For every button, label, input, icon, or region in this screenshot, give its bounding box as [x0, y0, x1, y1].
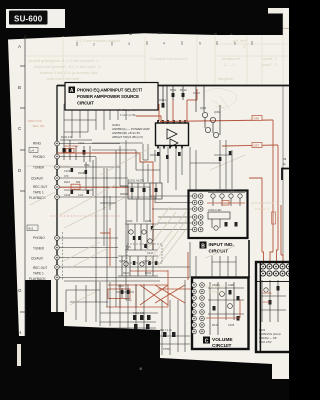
svg-text:.8.C.9 ent evomer ot woH: .8.C.9 ent evomer ot woH [75, 38, 120, 43]
resistor R101 / capacitor C101 phono input network [60, 140, 92, 162]
wire grid upper area [64, 95, 232, 210]
small parts in red mesh area [116, 288, 134, 298]
title box A [65, 83, 158, 111]
svg-text:snaem .E: snaem .E [255, 207, 270, 211]
bottom text block [259, 328, 281, 344]
svg-text:R101 47k: R101 47k [61, 135, 73, 139]
svg-text:langiseD: langiseD [218, 76, 234, 81]
wire input jack bus [56, 85, 58, 312]
svg-text:Q501: Q501 [210, 189, 217, 193]
svg-text:B: B [201, 243, 205, 249]
svg-text:1 kHz (mV): 1 kHz (mV) [120, 113, 135, 117]
wire runs from input jacks [59, 144, 192, 278]
svg-text:MAX 2.5V: MAX 2.5V [259, 340, 272, 344]
svg-text:D36: D36 [254, 117, 260, 121]
svg-text:Re 78 c(mV): Re 78 c(mV) [118, 108, 135, 112]
svg-text:G: G [18, 288, 22, 293]
op-amp IC301 AN6552 power amp [156, 120, 189, 149]
schematic frame: left margin rule [24, 35, 26, 336]
svg-text:CIRCUIT: CIRCUIT [77, 101, 94, 106]
page corner notch top-right [268, 8, 283, 14]
svg-text:REC OUT: REC OUT [33, 185, 47, 189]
svg-text:RL401: RL401 [263, 300, 271, 304]
wire thick power rail (top frame line) [57, 85, 289, 87]
svg-text:LN514 LED: LN514 LED [208, 208, 222, 212]
svg-text:SVR401: SVR401 [262, 291, 272, 295]
svg-text:3: 3 [128, 42, 130, 46]
svg-text:R110: R110 [64, 180, 71, 184]
svg-text:C109: C109 [64, 193, 71, 197]
faint through-print text top (mirrored page behind) [28, 38, 278, 81]
svg-text:CIRCUIT: CIRCUIT [212, 343, 232, 349]
wire verticals joining clusters [96, 140, 182, 307]
svg-text:100p: 100p [126, 299, 132, 302]
vertical bundle down the right of B box [272, 120, 274, 252]
svg-text:4: 4 [163, 42, 165, 46]
svg-text:Q502: Q502 [228, 189, 235, 193]
transistors Q205/Q206 flat amp cluster [118, 256, 158, 276]
svg-text:BAL 10k: BAL 10k [33, 124, 45, 128]
red feed along IC [160, 120, 273, 122]
dashed bus right of jacks [62, 232, 64, 280]
speaker terminal jacks [260, 264, 265, 269]
red REC OUT trace [59, 187, 128, 197]
svg-text:swercs 3 eht )2.8 (p evomer dn: swercs 3 eht )2.8 (p evomer dna [40, 70, 98, 75]
svg-text:VOLUME: VOLUME [212, 337, 233, 343]
svg-text:TAPE 1: TAPE 1 [33, 191, 44, 195]
svg-text:PHONO: PHONO [33, 155, 45, 159]
IC part-number text block [112, 123, 150, 139]
svg-text:R105 MAIN: R105 MAIN [64, 144, 78, 148]
capacitors C303/C304, resistors R311/R312 on supply rail [152, 86, 204, 124]
right frame rule [282, 86, 284, 262]
svg-text:Q302: Q302 [214, 110, 221, 114]
thick box corner top right [282, 169, 289, 181]
svg-text:CD/AUX: CD/AUX [31, 177, 44, 181]
svg-text:D37: D37 [254, 144, 260, 148]
svg-text:Cl rewo9 ent evome1: Cl rewo9 ent evome1 [150, 56, 189, 61]
bends into bottom jack panel [262, 252, 264, 264]
svg-text:H: H [18, 330, 21, 335]
wire grid bottom area [66, 280, 190, 355]
svg-text:C: C [205, 338, 209, 344]
dirt specks along top edge [129, 33, 233, 35]
faint table rules of through-print [25, 14, 289, 110]
svg-text:A: A [18, 44, 21, 49]
svg-text:TUNER: TUNER [33, 247, 45, 251]
svg-text:0.22: 0.22 [78, 193, 84, 197]
annotation right of title box [118, 108, 135, 117]
SU-600 model plate [6, 9, 65, 28]
svg-text:6: 6 [234, 42, 236, 46]
svg-text:5: 5 [199, 42, 201, 46]
small parts above B box [219, 151, 232, 161]
svg-text:R221: R221 [123, 271, 130, 275]
svg-text:10kB: 10kB [228, 283, 234, 287]
left input jacks group 2 (R-ch) [27, 225, 38, 231]
column grid ticks along page top [77, 41, 252, 46]
svg-text:R117 4.7k: R117 4.7k [160, 328, 172, 332]
red trace inside [207, 202, 245, 204]
svg-text:220p: 220p [84, 163, 90, 167]
svg-text:INPUT IND.: INPUT IND. [209, 242, 234, 248]
transistors Q301/Q302 power stage [196, 98, 220, 138]
svg-text:MAIN VOL: MAIN VOL [28, 119, 43, 123]
svg-text:2: 2 [93, 43, 95, 47]
svg-text:Q301: Q301 [200, 106, 207, 110]
svg-text:.nraW .1: .nraW .1 [262, 56, 278, 61]
svg-text:470: 470 [64, 174, 69, 178]
svg-text:R410: R410 [212, 323, 219, 327]
additional small parts left column [71, 168, 90, 194]
svg-text:TP601: TP601 [163, 347, 171, 351]
faint diagonal pencil shadows [30, 148, 245, 305]
wire runs into B box pins [152, 209, 192, 230]
svg-text:rewol eht gnizeerf ,.8.C.9 eht: rewol eht gnizeerf ,.8.C.9 eht nepO .2 [34, 64, 101, 69]
IC201 muting circuit cluster [120, 183, 162, 199]
transistors Q501/Q502 indicator drivers [208, 193, 245, 207]
dashed outline around flat amp cluster [127, 244, 162, 263]
margin grid letters [18, 44, 22, 335]
relay RL401 / resistor network internals [260, 280, 286, 322]
svg-text:C217: C217 [147, 251, 154, 255]
B box label [200, 242, 207, 249]
svg-text:PHONO EQ.AMP/INPUT SELECT/: PHONO EQ.AMP/INPUT SELECT/ [77, 88, 143, 93]
svg-text:C115: C115 [118, 285, 124, 288]
page sliver bottom-left [17, 344, 21, 366]
red junction dots on IC feed [161, 120, 188, 122]
svg-text:R222: R222 [145, 271, 152, 275]
svg-text:C601 100: C601 100 [133, 311, 145, 315]
svg-text:R311: R311 [170, 88, 177, 92]
svg-text:B: B [18, 85, 21, 90]
svg-text:R108: R108 [78, 171, 85, 175]
svg-text:CD/AUX: CD/AUX [31, 257, 44, 261]
red feed from callout to IC [136, 116, 161, 122]
svg-text:C304: C304 [159, 98, 166, 102]
connector pin columns in B box [192, 194, 197, 199]
LED LN514 indicator parts [208, 212, 230, 230]
svg-text:RING: RING [33, 142, 41, 146]
volume pot VR401 internals [208, 282, 244, 335]
svg-text:;erutxif gnitroppus .8.C.9 eht: ;erutxif gnitroppus .8.C.9 eht evomeR .1 [28, 58, 99, 63]
svg-text:/DRADNATS: /DRADNATS [205, 285, 226, 289]
svg-text:R312: R312 [180, 88, 187, 92]
C box label [203, 337, 210, 344]
red wire B box down to C box [187, 252, 189, 280]
transistors Q203/Q204 input select cluster [125, 224, 158, 250]
svg-text:POWER AMP/POWER SOURCE: POWER AMP/POWER SOURCE [77, 94, 139, 99]
capacitors below IC301 [157, 152, 181, 159]
svg-text:PHONO: PHONO [33, 236, 45, 240]
svg-text:Q204: Q204 [145, 219, 152, 223]
svg-text:A: A [70, 88, 74, 94]
bottom centre parts cluster [133, 315, 176, 337]
svg-text:REC OUT: REC OUT [33, 266, 47, 270]
svg-text:CIRCUIT: CIRCUIT [209, 249, 229, 255]
svg-text:IC201 MUTE: IC201 MUTE [128, 179, 144, 183]
svg-text:Q205: Q205 [119, 259, 126, 263]
svg-text:C106: C106 [64, 169, 71, 173]
svg-text:gnitoohselbuorT: gnitoohselbuorT [251, 201, 277, 205]
svg-text:TAPE 1: TAPE 1 [33, 272, 44, 276]
through-print diagonal hatching left of B box [145, 207, 187, 266]
svg-text:C405: C405 [228, 323, 235, 327]
svg-text:56k: 56k [76, 180, 81, 184]
connector pin columns in C box [192, 283, 205, 334]
row divider faint line [25, 165, 70, 167]
svg-text:TUNER: TUNER [33, 166, 45, 170]
svg-text:Q203: Q203 [126, 219, 133, 223]
margin tick marks [20, 66, 25, 312]
diode labels D36/D37/D38 (red) [252, 116, 262, 121]
svg-text:NOISIVID: NOISIVID [208, 290, 224, 294]
svg-text:erudecor9: erudecor9 [222, 56, 241, 61]
svg-text:3 — 1: 3 — 1 [224, 62, 235, 67]
wire thick link B box to C box [248, 240, 250, 278]
svg-text:ABS(27.5W)/1.3B (mV): ABS(27.5W)/1.3B (mV) [112, 135, 143, 139]
svg-text:B-2: B-2 [29, 227, 34, 231]
through-print faint text middle right [205, 201, 277, 294]
wire horizontals bottom mesh [64, 281, 160, 313]
svg-text:L4: L4 [31, 149, 35, 153]
svg-text:snarT .2: snarT .2 [262, 62, 277, 67]
svg-text:C101: C101 [78, 141, 85, 145]
page number dot in black area [140, 368, 143, 371]
svg-text:SU-600: SU-600 [14, 14, 43, 23]
svg-text:PLAYBACK: PLAYBACK [29, 277, 46, 281]
